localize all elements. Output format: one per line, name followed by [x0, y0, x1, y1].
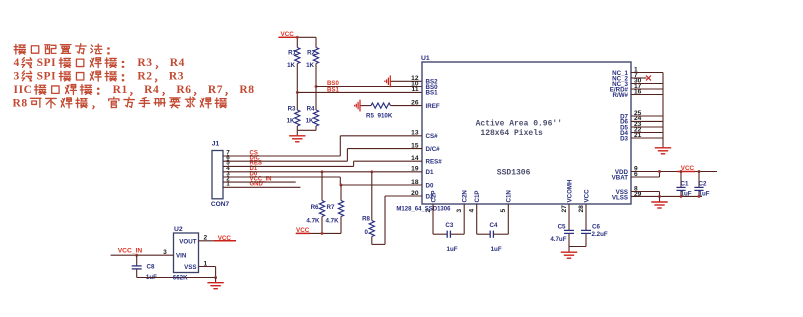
- svg-text:R/W#: R/W#: [613, 92, 629, 99]
- svg-text:11: 11: [412, 86, 419, 93]
- svg-text:R8: R8: [239, 84, 254, 96]
- svg-text:VCC_IN: VCC_IN: [118, 247, 143, 254]
- svg-text:BS1: BS1: [426, 90, 439, 97]
- svg-text:910K: 910K: [378, 113, 393, 120]
- svg-text:1uF: 1uF: [491, 246, 502, 253]
- svg-text:R7: R7: [208, 84, 223, 96]
- svg-text:BS1: BS1: [327, 86, 339, 93]
- svg-text:VOUT: VOUT: [179, 238, 196, 245]
- svg-text:1uF: 1uF: [447, 246, 458, 253]
- svg-text:2: 2: [204, 235, 208, 242]
- svg-text:R4: R4: [144, 84, 159, 96]
- svg-text:1K: 1K: [306, 62, 314, 69]
- svg-text:VSS: VSS: [184, 264, 196, 271]
- svg-text:28: 28: [578, 205, 585, 213]
- svg-text:R6: R6: [176, 84, 191, 96]
- svg-text:SPI: SPI: [37, 57, 57, 69]
- svg-text:R7: R7: [327, 204, 335, 211]
- svg-text:SPI: SPI: [37, 71, 57, 83]
- svg-text:M128_64_SSD1306: M128_64_SSD1306: [396, 207, 451, 213]
- svg-text:1: 1: [204, 260, 208, 267]
- svg-text:R4: R4: [307, 105, 315, 112]
- svg-text:R8: R8: [362, 216, 370, 223]
- svg-text:VIN: VIN: [176, 253, 187, 260]
- svg-text:C1N: C1N: [506, 190, 513, 203]
- svg-text:VCC: VCC: [218, 235, 232, 242]
- svg-text:2.2uF: 2.2uF: [592, 231, 608, 238]
- svg-text:R1: R1: [113, 84, 128, 96]
- svg-text:J1: J1: [212, 140, 220, 147]
- svg-text:VBAT: VBAT: [612, 174, 629, 181]
- svg-text:1K: 1K: [287, 118, 295, 125]
- svg-text:C1P: C1P: [474, 190, 481, 202]
- svg-text:VCC: VCC: [583, 189, 590, 203]
- svg-text:CS#: CS#: [426, 133, 439, 140]
- svg-text:VCC: VCC: [281, 31, 295, 38]
- svg-text:R3: R3: [169, 71, 184, 83]
- svg-text:D3: D3: [620, 135, 628, 142]
- svg-text:VCC: VCC: [296, 227, 310, 234]
- svg-text:R3: R3: [137, 57, 152, 69]
- svg-text:662K: 662K: [173, 274, 188, 281]
- svg-text:RES#: RES#: [426, 159, 443, 166]
- svg-text:R5: R5: [366, 113, 374, 120]
- svg-text:C2N: C2N: [462, 190, 469, 203]
- svg-text:3: 3: [163, 249, 167, 256]
- svg-text:3: 3: [14, 71, 20, 83]
- svg-text:R8: R8: [13, 97, 28, 109]
- svg-text:26: 26: [411, 99, 419, 106]
- svg-text:1K: 1K: [306, 118, 314, 125]
- svg-text:0: 0: [365, 229, 369, 236]
- svg-text:4: 4: [14, 57, 20, 69]
- svg-text:VCC: VCC: [681, 165, 695, 172]
- svg-text:SSD1306: SSD1306: [497, 168, 531, 177]
- svg-text:R1: R1: [288, 50, 296, 57]
- svg-text:D1: D1: [426, 169, 434, 176]
- svg-text:5: 5: [500, 209, 507, 213]
- svg-text:4: 4: [469, 209, 476, 213]
- svg-text:C8: C8: [147, 263, 155, 270]
- svg-text:D0: D0: [426, 182, 434, 189]
- svg-text:VLSS: VLSS: [612, 194, 628, 201]
- svg-text:4.7uF: 4.7uF: [550, 236, 566, 243]
- svg-text:27: 27: [561, 205, 568, 213]
- svg-text:R2: R2: [307, 50, 315, 57]
- svg-text:IIC: IIC: [14, 84, 33, 96]
- svg-text:IREF: IREF: [426, 103, 440, 110]
- svg-text:C5: C5: [558, 224, 566, 231]
- svg-text:U1: U1: [421, 55, 430, 62]
- svg-text:R6: R6: [311, 204, 319, 211]
- svg-text:C2: C2: [699, 181, 707, 188]
- svg-text:R3: R3: [288, 105, 296, 112]
- svg-text:128x64 Pixels: 128x64 Pixels: [480, 129, 543, 138]
- svg-text:D/C#: D/C#: [426, 146, 441, 153]
- svg-text:C1: C1: [681, 181, 689, 188]
- svg-text:C6: C6: [592, 224, 600, 231]
- svg-text:1K: 1K: [287, 62, 295, 69]
- svg-text:C2P: C2P: [430, 190, 437, 202]
- svg-text:C3: C3: [445, 222, 453, 229]
- svg-text:R4: R4: [170, 57, 185, 69]
- svg-text:C4: C4: [490, 222, 498, 229]
- svg-text:Active Area 0.96'': Active Area 0.96'': [476, 119, 562, 128]
- svg-text:CON7: CON7: [211, 201, 230, 208]
- svg-text:4.7K: 4.7K: [326, 218, 340, 225]
- svg-text:U2: U2: [174, 226, 183, 233]
- svg-text:3: 3: [456, 209, 463, 213]
- svg-text:VCOMH: VCOMH: [566, 179, 573, 203]
- svg-text:4.7K: 4.7K: [306, 218, 320, 225]
- svg-text:R2: R2: [137, 71, 152, 83]
